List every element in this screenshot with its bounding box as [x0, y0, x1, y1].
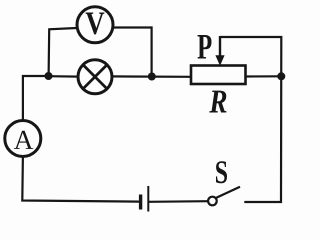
wire: ammeter to bottom-left corner [22, 156, 139, 202]
label S [216, 161, 227, 183]
switch S pivot [208, 197, 217, 206]
wire: voltmeter right lead [114, 28, 152, 77]
node D junction dot [277, 72, 285, 80]
slider P arrowhead [215, 55, 224, 66]
battery cell positive plate [147, 186, 149, 212]
rheostat R body [191, 66, 246, 85]
label P [198, 35, 212, 59]
voltmeter V [77, 7, 113, 43]
wire: rheostat to right rail [246, 75, 282, 77]
node C junction dot [148, 73, 156, 81]
ammeter A [5, 121, 41, 157]
wire: lamp to rheostat [112, 75, 192, 78]
wire: voltmeter left lead [49, 28, 77, 76]
switch S blade [216, 187, 240, 198]
wire: node B to lamp [49, 75, 79, 78]
battery cell negative plate [139, 195, 142, 210]
wire: battery to switch [148, 200, 208, 203]
wire: slider lead [219, 36, 221, 57]
node B junction dot [45, 72, 53, 80]
wire: node B to ammeter [23, 76, 49, 121]
wire: switch to bottom-right corner [220, 37, 281, 202]
lamp L [78, 60, 112, 94]
label R [209, 91, 226, 113]
